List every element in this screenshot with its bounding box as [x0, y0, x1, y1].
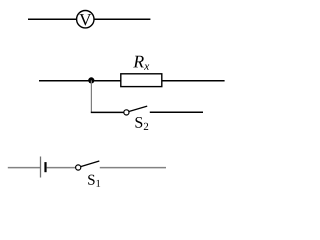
wire bottom-left to battery	[8, 167, 41, 169]
label Rx	[133, 56, 149, 70]
label S1	[88, 175, 100, 187]
label S2	[135, 117, 148, 130]
resistor Rx	[121, 74, 162, 87]
wire corner to switch S2	[91, 111, 124, 113]
battery short plate (-)	[44, 162, 46, 172]
wire battery to switch S1	[47, 167, 76, 169]
battery long plate (+)	[40, 157, 42, 178]
wire vertical from node down	[90, 80, 92, 112]
wire voltmeter to top-right	[94, 18, 150, 20]
wire resistor to middle-right	[162, 80, 225, 82]
wire switch S1 to bottom-right	[100, 167, 166, 169]
voltmeter V1	[77, 11, 94, 28]
wire middle-left to node	[39, 80, 121, 82]
wire top-left to voltmeter	[28, 18, 77, 20]
switch S1	[76, 165, 81, 170]
wire switch S2 to right	[150, 111, 203, 113]
switch S2	[124, 110, 129, 115]
node junction dot	[88, 77, 94, 83]
